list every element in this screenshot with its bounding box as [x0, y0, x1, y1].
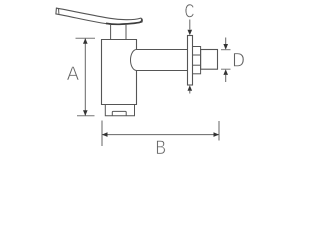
lever left cap inner line — [58, 8, 60, 14]
dim B left extension — [101, 121, 103, 147]
dim B right arrowhead — [214, 132, 220, 137]
svg-text:D: D — [232, 49, 245, 71]
dim A line — [84, 38, 86, 116]
lever right cap — [141, 18, 142, 22]
dim B line — [102, 134, 219, 136]
body outline — [102, 40, 137, 105]
dim A top tick — [76, 37, 96, 39]
dim D bottom tick — [221, 68, 231, 70]
dim C stub top — [189, 20, 191, 30]
svg-text:B: B — [155, 137, 166, 159]
spout tube top line — [137, 49, 188, 51]
stem left line — [110, 24, 112, 39]
base — [105, 105, 134, 116]
svg-text:C: C — [185, 1, 195, 22]
dim D top arrowhead — [223, 44, 228, 50]
nozzle — [201, 50, 218, 70]
dim A top arrowhead — [83, 38, 88, 44]
dim A bottom tick — [77, 115, 95, 117]
stem right line — [125, 24, 127, 39]
base notch — [112, 111, 126, 115]
dim B left arrowhead — [102, 132, 108, 137]
flange — [188, 36, 193, 86]
dim A bottom arrowhead — [83, 110, 88, 116]
dim D top stub — [225, 38, 227, 45]
lever underside thick edge — [106, 19, 142, 24]
dim D top tick — [221, 49, 231, 51]
dim B right extension — [218, 121, 220, 141]
dim D bottom stub — [225, 75, 227, 82]
lever handle — [56, 8, 142, 24]
fillet arc at tube-body junction — [131, 50, 137, 71]
nut — [193, 47, 201, 74]
nut facet line 1 — [193, 54, 201, 56]
dim C top arrowhead — [188, 30, 193, 36]
dim C stub bottom — [189, 91, 191, 94]
svg-text:A: A — [67, 63, 80, 84]
spout tube bottom line — [137, 70, 188, 72]
dim C bottom arrowhead — [188, 85, 193, 91]
dim D bottom arrowhead — [223, 69, 228, 75]
nut facet line 2 — [193, 64, 201, 66]
